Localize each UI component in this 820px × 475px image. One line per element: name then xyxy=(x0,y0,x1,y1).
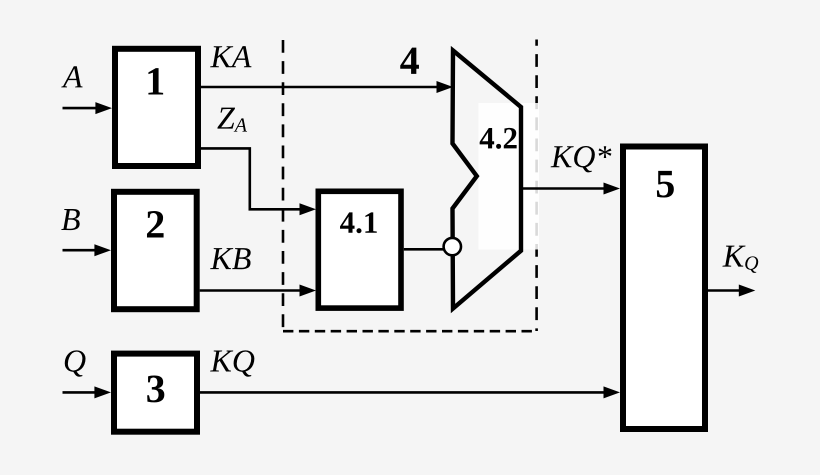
block 3 xyxy=(114,354,197,432)
wire KQ* from mux 4.2 to block 5 xyxy=(521,183,620,195)
dashed boundary of block 4 : right vertical xyxy=(535,40,538,332)
dashed boundary of block 4 : bottom horizontal xyxy=(283,330,537,333)
label 2 xyxy=(147,211,164,237)
label KQ xyxy=(210,350,254,376)
label A xyxy=(61,66,82,87)
label KA xyxy=(210,46,251,67)
wire Q input xyxy=(63,386,112,398)
wire KQ output from block 5 xyxy=(708,285,755,297)
label 1 xyxy=(148,68,163,94)
block 2 xyxy=(114,192,197,309)
block 4.1 xyxy=(318,191,401,308)
label 4.2 xyxy=(480,128,517,149)
dashed boundary of block 4 : left vertical xyxy=(282,40,285,331)
wire B input xyxy=(63,244,112,256)
label KB xyxy=(210,248,251,269)
white label plate behind 4.2 xyxy=(479,103,540,250)
label KQ output xyxy=(722,246,758,273)
label ZA xyxy=(217,108,247,132)
label B xyxy=(61,209,80,230)
label Q xyxy=(65,350,86,376)
inverter bubble xyxy=(444,238,461,255)
label 5 xyxy=(657,171,674,198)
label KQ* xyxy=(551,146,612,172)
label 4 xyxy=(400,48,419,74)
wire KA from block 1 to mux 4.2 xyxy=(201,81,453,93)
label 3 xyxy=(147,376,164,403)
wire KB from block 2 to block 4.1 xyxy=(200,285,316,297)
wire ZA from block 1 to block 4.1 xyxy=(201,148,316,215)
block 1 xyxy=(115,49,198,166)
block 5 xyxy=(623,147,705,430)
wire A input xyxy=(63,102,113,114)
wire from 4.1 output to inverter bubble xyxy=(404,248,446,251)
label 4.1 xyxy=(340,212,377,233)
wire KQ from block 3 to block 5 xyxy=(200,386,620,398)
mux 4.2 outline xyxy=(453,51,522,309)
